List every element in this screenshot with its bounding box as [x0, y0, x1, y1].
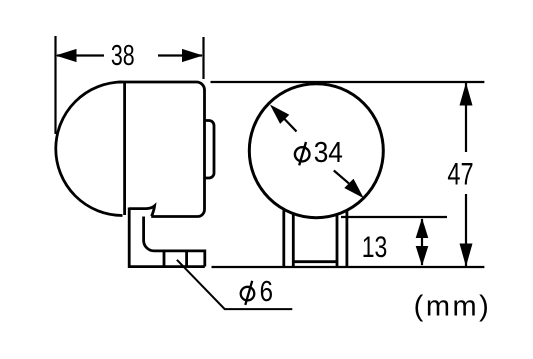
dim 13: up arrowhead — [416, 218, 429, 238]
47 top extension line — [211, 81, 485, 83]
dim 38: left arrowhead — [56, 49, 77, 62]
phi6 leader line — [177, 260, 292, 309]
dim 47: down arrowhead — [460, 244, 473, 267]
left view: side tab bump — [205, 121, 215, 179]
dim 47: shaft upper — [465, 83, 467, 152]
svg-text:(mm): (mm) — [414, 290, 492, 322]
svg-text:38: 38 — [111, 40, 135, 72]
dim 38: left extension line — [54, 36, 56, 134]
phi34 leader arrow upper tail — [284, 119, 297, 132]
dim 38: dimension line left piece — [57, 54, 104, 56]
dim 38: right arrowhead — [182, 49, 203, 62]
left view: body outline — [118, 82, 205, 217]
dim 13: arrow shaft — [421, 219, 423, 265]
left view: bracket outline — [129, 206, 205, 267]
svg-text:47: 47 — [447, 156, 473, 191]
dim 47: shaft lower — [465, 194, 467, 266]
dim 13: down arrowhead — [416, 246, 429, 266]
phi34 upper-left arrowhead — [270, 105, 289, 124]
bottom extension line — [212, 266, 485, 268]
dim 13: top extension line — [341, 216, 447, 218]
left view: dome/body divider line — [123, 83, 126, 216]
dim 47: up arrowhead — [460, 83, 473, 106]
svg-text:6: 6 — [260, 275, 273, 308]
front view: ball circle — [249, 84, 383, 218]
dim 38: dimension line right piece — [158, 54, 202, 56]
svg-text:34: 34 — [314, 136, 343, 168]
front view: bracket left post — [284, 211, 294, 267]
phi symbol of phi6 — [241, 281, 255, 305]
left view: bracket hole edge lines — [164, 251, 187, 267]
phi34 leader arrow lower tail — [334, 171, 349, 184]
svg-text:13: 13 — [362, 230, 388, 263]
phi symbol of phi34 — [295, 142, 310, 165]
phi34 lower-right arrowhead — [344, 179, 364, 199]
front view: bracket inner bottom edge — [293, 260, 337, 263]
left view: dome front (side view) — [56, 82, 123, 216]
dim 38: right extension line — [202, 37, 204, 79]
front view: bracket right post — [337, 211, 347, 266]
